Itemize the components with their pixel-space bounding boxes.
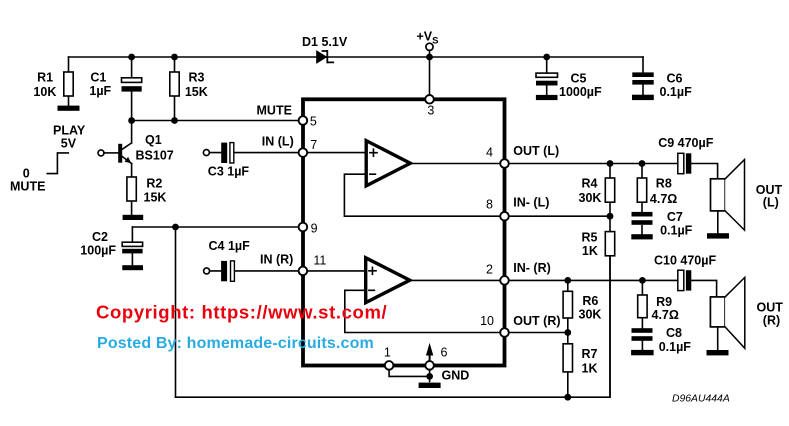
svg-text:C7: C7 <box>667 210 683 224</box>
wire top rail <box>69 56 644 58</box>
resistor R3 <box>170 57 179 121</box>
node R8 top <box>639 160 646 167</box>
wire pin6 to gnd node <box>429 370 431 382</box>
label C7 <box>660 210 693 237</box>
wire U1B output <box>410 279 501 281</box>
node mute R3 <box>171 117 178 124</box>
label C5 <box>559 72 602 99</box>
pin 9 <box>299 223 308 232</box>
label D96AU444A <box>672 394 730 405</box>
node R9 top <box>639 277 646 284</box>
pin 1 <box>385 361 394 370</box>
svg-text:OUT (R): OUT (R) <box>513 314 560 328</box>
svg-text:OUT (L): OUT (L) <box>513 144 559 158</box>
label C3 <box>208 164 250 178</box>
svg-text:C3 1µF: C3 1µF <box>208 164 250 178</box>
svg-text:C5: C5 <box>571 72 587 86</box>
label +VS <box>417 30 439 47</box>
label C8 <box>659 326 692 354</box>
wire left return vertical <box>175 227 177 397</box>
svg-text:Copyright: https://www.st.com/: Copyright: https://www.st.com/ <box>96 302 387 323</box>
wire pin9 net <box>132 226 298 228</box>
label R9 <box>652 295 679 322</box>
resistor R8 <box>637 164 646 212</box>
node R3 top <box>171 54 178 61</box>
svg-text:30K: 30K <box>579 191 602 205</box>
label R8 <box>650 177 677 206</box>
svg-text:C6: C6 <box>667 72 683 86</box>
capacitor C8 <box>632 328 653 350</box>
svg-text:15K: 15K <box>144 191 167 205</box>
ground speaker R <box>707 350 729 355</box>
svg-text:5: 5 <box>310 115 317 129</box>
label IN- (L) <box>513 196 549 210</box>
label OUT (L) <box>513 144 559 158</box>
label R3 <box>185 71 208 99</box>
pin 6 <box>425 361 434 370</box>
label R2 <box>144 177 167 205</box>
svg-text:4.7Ω: 4.7Ω <box>652 308 679 322</box>
svg-text:15K: 15K <box>185 85 208 99</box>
svg-text:0.1µF: 0.1µF <box>660 223 693 237</box>
label OUT (R) <box>513 314 560 328</box>
svg-text:C1: C1 <box>90 71 106 85</box>
svg-text:R5: R5 <box>582 231 598 245</box>
node C2 branch <box>172 224 179 231</box>
label PLAY 5V step <box>10 123 86 193</box>
pin 6 arrow <box>426 343 433 361</box>
svg-text:MUTE: MUTE <box>10 180 45 194</box>
svg-text:9: 9 <box>311 221 318 235</box>
node R4 bottom <box>607 213 614 220</box>
svg-text:Q1: Q1 <box>145 133 162 147</box>
pin 10 <box>500 328 509 337</box>
svg-text:Posted By: homemade-circuits.c: Posted By: homemade-circuits.com <box>97 335 374 352</box>
ground R1 <box>58 106 80 111</box>
label MUTE <box>257 104 292 118</box>
pin 8 <box>500 212 509 221</box>
node R4 top <box>607 160 614 167</box>
resistor R5 <box>605 216 614 397</box>
pin 3 <box>425 95 434 104</box>
svg-text:IN- (L): IN- (L) <box>513 196 549 210</box>
svg-text:11: 11 <box>313 254 326 268</box>
svg-text:0.1µF: 0.1µF <box>659 340 692 354</box>
ground C2 <box>122 265 143 270</box>
svg-text:C4 1µF: C4 1µF <box>209 239 251 253</box>
svg-text:R1: R1 <box>37 71 53 85</box>
label R6 <box>579 294 602 322</box>
label D1 <box>302 35 348 49</box>
label Q1 <box>136 133 174 162</box>
label C10 <box>654 253 716 267</box>
ground C8 <box>631 350 654 355</box>
svg-text:100µF: 100µF <box>80 243 116 257</box>
ground R2 <box>123 215 144 220</box>
svg-text:8: 8 <box>486 198 493 212</box>
node VS <box>426 54 433 61</box>
label C6 <box>660 72 693 99</box>
svg-text:C8: C8 <box>666 326 682 340</box>
pin 2 <box>500 276 509 285</box>
svg-text:1µF: 1µF <box>89 84 111 98</box>
svg-text:MUTE: MUTE <box>257 104 292 118</box>
label OUT (L) speaker <box>756 183 783 209</box>
pin 11 <box>299 267 308 276</box>
wire U1A output <box>410 163 500 165</box>
capacitor C10 <box>678 270 717 297</box>
svg-text:R4: R4 <box>582 177 598 191</box>
capacitor C9 <box>678 153 718 179</box>
node C5 top <box>543 54 550 61</box>
wire IN-(R) net <box>509 279 678 281</box>
capacitor C7 <box>632 212 653 234</box>
svg-text:R2: R2 <box>146 177 162 191</box>
svg-text:1K: 1K <box>582 244 598 258</box>
svg-text:C9 470µF: C9 470µF <box>658 136 714 150</box>
ground GND <box>419 383 441 388</box>
svg-text:(R): (R) <box>763 314 780 328</box>
pin 7 <box>299 148 308 157</box>
svg-text:4.7Ω: 4.7Ω <box>650 192 677 206</box>
label C4 <box>209 239 251 253</box>
resistor R9 <box>638 280 647 328</box>
wire U1B feedback <box>345 290 500 332</box>
svg-text:R3: R3 <box>189 71 205 85</box>
label R1 <box>33 71 56 99</box>
wire VS to pin3 <box>429 57 431 95</box>
label OUT (R) speaker <box>757 301 784 328</box>
label IN (R) <box>260 252 293 266</box>
svg-text:IN (R): IN (R) <box>260 252 293 266</box>
label R4 <box>579 177 602 205</box>
resistor R1 <box>64 57 73 106</box>
svg-text:3: 3 <box>427 103 434 117</box>
wire IN-(L) net <box>509 215 610 217</box>
transistor Q1 <box>98 121 132 164</box>
pin 5 <box>299 116 308 125</box>
svg-text:IN (L): IN (L) <box>262 134 294 148</box>
svg-text:GND: GND <box>442 369 470 383</box>
capacitor C3 <box>203 143 298 163</box>
svg-text:2: 2 <box>486 262 493 276</box>
svg-text:10: 10 <box>480 314 494 328</box>
node +VS terminal <box>426 43 433 57</box>
capacitor C5 <box>536 57 558 95</box>
resistor R2 <box>127 164 136 215</box>
wire OUT(L) net <box>509 163 678 165</box>
label IN (L) <box>262 134 294 148</box>
svg-text:R8: R8 <box>656 177 672 191</box>
op-amp U1 package box <box>303 99 505 365</box>
resistor R4 <box>605 164 614 217</box>
label C1 <box>89 71 111 99</box>
resistor R7 <box>563 333 572 398</box>
svg-text:6: 6 <box>441 346 448 360</box>
node C1 top <box>128 54 135 61</box>
label R7 <box>582 347 598 375</box>
svg-text:C10 470µF: C10 470µF <box>654 253 716 267</box>
svg-text:D96AU444A: D96AU444A <box>672 394 730 405</box>
wire mute net <box>132 120 299 122</box>
wire U1A feedback <box>344 174 500 216</box>
svg-text:PLAY: PLAY <box>53 123 86 137</box>
node R6 bottom <box>564 329 571 336</box>
capacitor C1 <box>122 57 142 121</box>
ground C5 <box>536 95 558 100</box>
svg-text:(L): (L) <box>763 195 779 209</box>
label posted by <box>97 335 374 352</box>
label C2 <box>80 230 116 257</box>
node mute step waveform <box>47 153 68 174</box>
wire pin11 to U1B <box>307 270 365 272</box>
svg-text:R6: R6 <box>582 294 598 308</box>
node mute C1 <box>128 117 135 124</box>
resistor R6 <box>563 280 572 332</box>
ground C7 <box>631 234 652 239</box>
label GND <box>442 369 470 383</box>
label copyright <box>96 302 387 323</box>
speaker OUT R <box>710 277 744 350</box>
node R6 top <box>564 277 571 284</box>
label C9 <box>658 136 714 150</box>
svg-text:5V: 5V <box>61 136 77 150</box>
svg-text:1: 1 <box>384 346 391 360</box>
capacitor C6 <box>632 57 653 95</box>
svg-text:D1 5.1V: D1 5.1V <box>302 35 348 49</box>
speaker OUT L <box>711 160 745 234</box>
wire pin1 to gnd node <box>389 370 430 377</box>
ground C6 <box>632 95 654 100</box>
svg-text:IN- (R): IN- (R) <box>513 261 551 275</box>
wire pin7 to U1A <box>307 152 366 154</box>
op-amp U1B <box>366 258 410 303</box>
svg-text:30K: 30K <box>579 307 602 321</box>
svg-text:4: 4 <box>486 145 493 159</box>
svg-text:R7: R7 <box>582 347 598 361</box>
svg-text:OUT: OUT <box>757 301 784 315</box>
label R5 <box>582 231 598 258</box>
diode D1 zener <box>317 51 333 63</box>
svg-text:0: 0 <box>23 166 30 180</box>
svg-text:10K: 10K <box>33 85 56 99</box>
pin 4 <box>500 159 509 168</box>
svg-text:C2: C2 <box>92 230 108 244</box>
node gnd <box>426 373 433 380</box>
label IN- (R) <box>513 261 551 275</box>
svg-text:0.1µF: 0.1µF <box>660 85 693 99</box>
wire OUT(R) net <box>509 332 568 334</box>
ground speaker L <box>707 233 729 238</box>
op-amp U1A <box>366 141 410 186</box>
svg-text:BS107: BS107 <box>136 148 174 162</box>
svg-text:7: 7 <box>310 138 317 152</box>
svg-text:1K: 1K <box>582 361 598 375</box>
capacitor C4 <box>204 261 299 281</box>
wire bottom return <box>176 256 611 397</box>
capacitor C2 <box>122 227 142 265</box>
svg-text:1000µF: 1000µF <box>559 85 602 99</box>
node R7 bottom <box>564 394 571 401</box>
